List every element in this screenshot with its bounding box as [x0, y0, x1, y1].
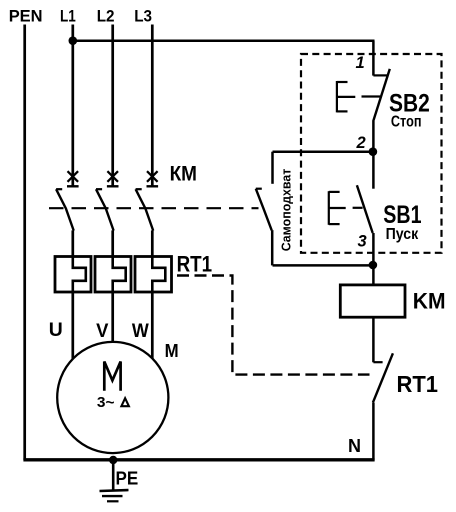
wire KM coil to RT1 contact [372, 317, 375, 362]
wire node 2 down to SB1 [372, 152, 375, 189]
thermal relay RT1 heater 1 element [73, 257, 86, 293]
RT1 contact blade (NC) [373, 353, 393, 402]
pushbutton SB1 blade (NO) [357, 185, 373, 233]
wire node 2 to self-hold branch [273, 150, 373, 153]
svg-text:Стоп: Стоп [391, 114, 422, 131]
wire pole 3 to heater [151, 230, 154, 256]
wire SB1 to node 3 [372, 233, 375, 265]
svg-text:RT1: RT1 [397, 371, 439, 397]
dashed box around pushbuttons SB1 SB2 [301, 54, 442, 253]
motor M letter glyph [104, 362, 120, 391]
wire V phase to motor [111, 292, 114, 348]
contactor KM pole 2 blade [96, 189, 114, 230]
thermal relay RT1 heater 2 element [113, 257, 126, 293]
svg-text:L1: L1 [60, 8, 76, 26]
svg-text:1: 1 [356, 54, 365, 72]
wire W phase to motor [151, 292, 154, 365]
mechanical linkage dashed line [49, 207, 259, 209]
pushbutton SB1 actuator [329, 191, 363, 225]
wire L2 vertical [111, 25, 114, 188]
wire top horizontal L1 to control branch [73, 39, 375, 42]
wire pole 1 to heater [71, 230, 74, 256]
junction node 2 [369, 147, 378, 156]
svg-text:PE: PE [116, 468, 139, 489]
motor M1 circle [57, 342, 168, 453]
svg-text:U: U [49, 320, 63, 341]
self-hold branch wire lower [271, 230, 274, 265]
contactor KM pole 1 X-terminal [67, 171, 79, 186]
RT1 contact fixed tick [373, 361, 382, 363]
wire RT1 contact to N [372, 403, 375, 461]
dashed link RT1 heaters to RT1 contact [177, 276, 370, 375]
pushbutton SB2 fixed contact tick [373, 74, 388, 76]
svg-text:V: V [96, 321, 109, 342]
svg-text:3: 3 [358, 232, 367, 250]
wire PEN vertical [23, 25, 26, 461]
svg-text:Самоподхват: Самоподхват [279, 169, 293, 252]
contactor KM pole 3 X-terminal [147, 171, 159, 186]
contactor KM pole 2 X-terminal [107, 171, 119, 186]
wire PE stem [112, 460, 115, 490]
wire N/PEN bottom horizontal [23, 458, 374, 461]
svg-text:M: M [165, 341, 179, 361]
svg-text:3~: 3~ [97, 395, 115, 411]
svg-text:PEN: PEN [9, 8, 43, 26]
wire pole 2 to heater [111, 230, 114, 256]
svg-text:L3: L3 [134, 8, 152, 26]
contactor coil KM [340, 285, 405, 317]
wire node 3 to KM coil [372, 265, 375, 285]
svg-text:Пуск: Пуск [386, 226, 419, 243]
svg-text:N: N [348, 436, 361, 456]
svg-text:2: 2 [356, 134, 366, 152]
thermal relay RT1 heater 3 element [152, 257, 165, 293]
wire SB2 to node 2 [372, 121, 375, 152]
wire U phase to motor [71, 292, 74, 365]
thermal relay RT1 heater 3 box [135, 257, 172, 293]
thermal relay RT1 heater 2 box [95, 257, 131, 293]
svg-text:L2: L2 [97, 8, 115, 26]
wire L3 vertical [151, 25, 154, 188]
ground symbol [100, 490, 129, 501]
svg-text:RT1: RT1 [177, 252, 213, 277]
wire L1 vertical [71, 25, 74, 188]
wire control branch down to SB2 [372, 41, 375, 76]
wire self-hold branch bottom to node 3 [273, 264, 373, 267]
contactor KM pole 1 blade [56, 189, 74, 230]
self-hold branch wire upper [271, 152, 274, 184]
pushbutton SB2 actuator [337, 81, 380, 112]
motor delta symbol [121, 398, 128, 406]
contactor KM pole 3 blade [136, 189, 154, 230]
svg-text:SB1: SB1 [383, 201, 421, 229]
svg-text:КМ: КМ [170, 163, 197, 186]
junction node 3 [369, 261, 378, 270]
junction node on L1 [69, 36, 78, 45]
svg-text:W: W [132, 321, 149, 342]
thermal relay RT1 heater 1 box [55, 257, 91, 293]
junction node motor PE to N wire [109, 456, 117, 464]
pushbutton SB2 blade (NC) [373, 69, 390, 121]
KM auxiliary self-hold contact blade [256, 189, 272, 231]
svg-text:KM: KM [413, 289, 446, 314]
